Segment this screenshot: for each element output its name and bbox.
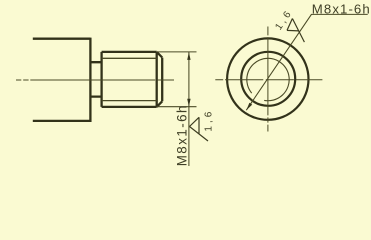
svg-text:1,6: 1,6 xyxy=(203,109,214,132)
svg-text:M8x1-6h: M8x1-6h xyxy=(312,2,371,17)
svg-text:M8x1-6h: M8x1-6h xyxy=(174,104,189,166)
